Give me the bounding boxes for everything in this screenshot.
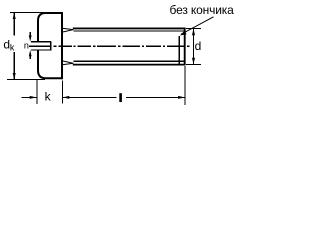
thread root line bottom [74, 60, 185, 62]
svg-text:без кончика: без кончика [170, 3, 235, 17]
shank outer line bottom [73, 64, 186, 66]
svg-text:n: n [24, 40, 29, 50]
svg-text:d: d [195, 39, 202, 53]
dimension n arrow down [29, 32, 32, 42]
dimension d_k extension line bottom [7, 79, 45, 81]
dimension k/l extension line mid [62, 81, 64, 104]
thread root line top [74, 30, 185, 32]
dimension d_k arrow up [13, 12, 16, 19]
dimension d extension line bottom [186, 64, 201, 66]
dimension l extension line right [184, 66, 186, 105]
tip zone line (без кончика reference, vertical) [178, 36, 180, 65]
dimension d line [193, 29, 195, 65]
dimension d_k line [13, 13, 15, 80]
dimension l arrow left (pointing left) [63, 96, 117, 99]
dimension l arrow right (pointing right) [126, 96, 185, 99]
leader arrowhead [180, 31, 187, 36]
svg-text:k: k [10, 43, 15, 53]
label d_k [3, 37, 15, 52]
thread run-out taper top [62, 28, 73, 32]
dimension d_k arrow down [13, 73, 16, 80]
dimension k arrow (outside, pointing right) [22, 96, 37, 99]
centerline (screw axis, dash-dot) [29, 45, 190, 47]
label l (bold) [119, 93, 122, 102]
thread run-out taper bottom [62, 61, 73, 65]
head outline (cheese head, rounded left corners) [38, 12, 62, 79]
leader line (без кончика) [181, 17, 214, 35]
dimension k extension line left [36, 80, 38, 104]
dimension d arrow down [192, 58, 195, 65]
slot (driver slot, side view cut) [31, 41, 51, 50]
dimension d_k extension line top [10, 12, 44, 14]
dimension d arrow up [192, 28, 195, 35]
shank outer line top [73, 27, 186, 29]
screw end face [184, 28, 186, 66]
svg-text:k: k [45, 89, 52, 103]
dimension n arrow up [29, 50, 32, 59]
dimension d extension line top [186, 28, 201, 30]
